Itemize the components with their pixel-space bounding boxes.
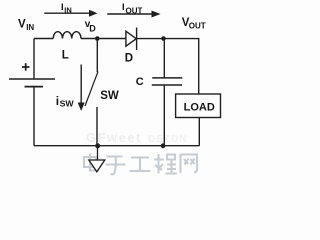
wire: left rail V_IN to battery (33, 39, 35, 80)
junction dot capacitor bottom (161, 143, 166, 148)
label C (136, 76, 144, 88)
label SW (100, 90, 119, 102)
switch SW top terminal (96, 39, 98, 73)
svg-text:I: I (61, 2, 64, 13)
wire: capacitor to bottom rail (163, 85, 165, 146)
junction dot node V_OUT (161, 36, 166, 41)
battery source (9, 79, 55, 87)
svg-text:SW: SW (60, 99, 75, 109)
inductor L (53, 32, 81, 39)
watermark (decorative, drawn first) (86, 130, 187, 145)
label + polarity (22, 63, 29, 70)
switch SW blade (85, 72, 98, 107)
wire: diode cathode to node V_OUT (137, 38, 164, 40)
label V_OUT (182, 17, 206, 31)
wire: node v_D to diode anode (97, 38, 126, 40)
svg-text:D: D (125, 53, 133, 65)
diode D (126, 28, 137, 51)
ground (89, 146, 105, 172)
label V_IN (18, 18, 34, 32)
load box LOAD (176, 94, 221, 118)
wire: LOAD bottom to ground rail (198, 118, 200, 146)
svg-text:OUT: OUT (189, 22, 206, 31)
wire: node V_OUT to top-right corner down to LOAD (164, 39, 199, 94)
switch SW bottom terminal (96, 107, 98, 146)
wire: node V_OUT down to capacitor (163, 39, 165, 78)
svg-text:SW: SW (100, 90, 119, 102)
capacitor C (152, 78, 183, 85)
svg-text:LOAD: LOAD (184, 101, 215, 113)
label v_D (85, 19, 97, 33)
svg-text:I: I (122, 2, 125, 13)
label D (125, 53, 133, 65)
wire: bottom ground rail (34, 145, 199, 147)
svg-text:L: L (62, 50, 69, 62)
wire: battery top corner to inductor (34, 38, 53, 40)
svg-text:DEZDN: DEZDN (148, 134, 187, 145)
junction dot ground node (95, 143, 100, 148)
wire: battery negative to bottom rail (33, 87, 35, 146)
svg-text:IN: IN (26, 23, 34, 32)
wire: inductor to node v_D (81, 38, 97, 40)
junction dot node v_D (95, 36, 100, 41)
current arrow i_SW (78, 65, 85, 112)
svg-text:V: V (18, 18, 26, 30)
svg-text:D: D (89, 23, 96, 33)
svg-text:C: C (136, 76, 144, 88)
label L (62, 50, 69, 62)
current arrow I_IN (44, 2, 97, 17)
label i_SW (56, 94, 75, 109)
current arrow I_OUT (107, 2, 160, 18)
svg-text:GFweet: GFweet (86, 130, 142, 145)
